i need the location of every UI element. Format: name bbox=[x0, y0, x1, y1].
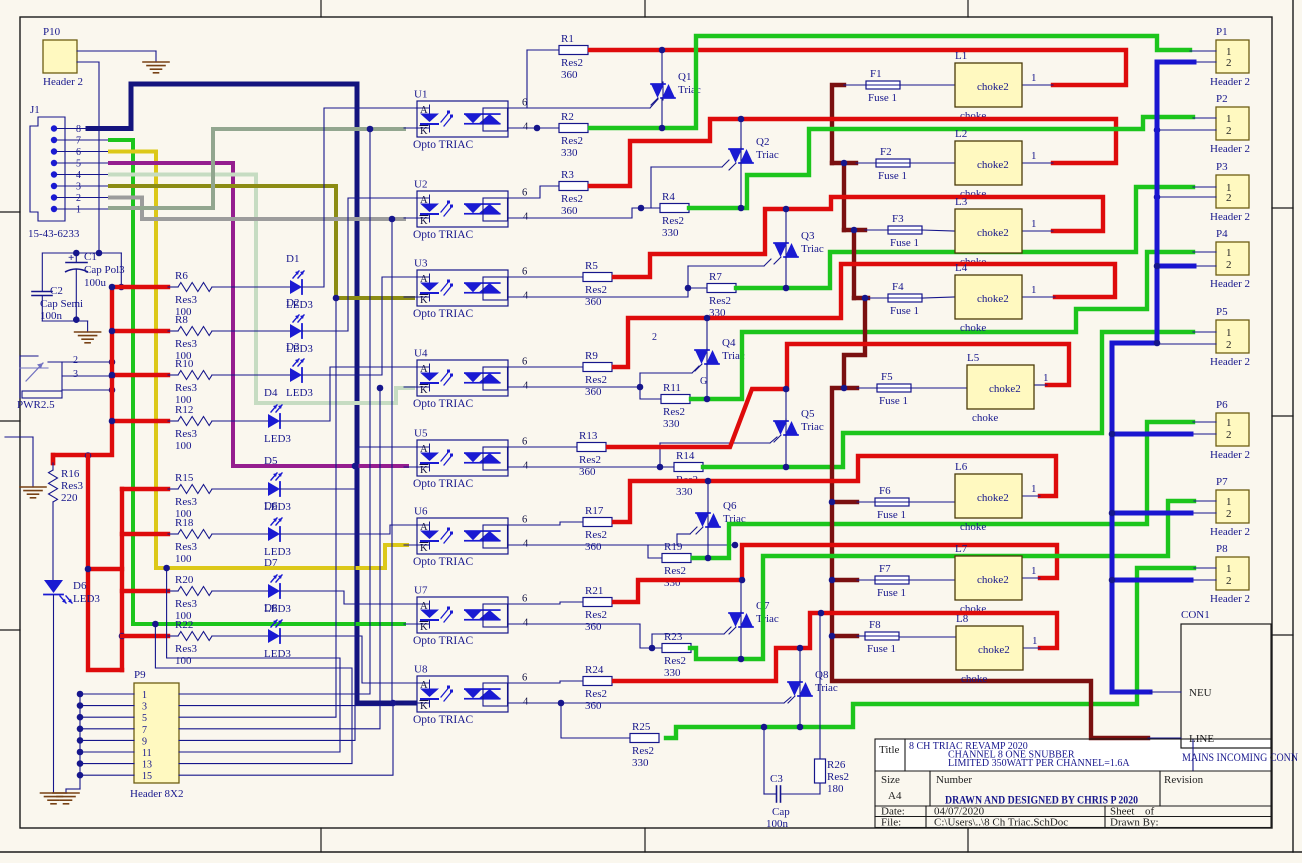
svg-text:Number: Number bbox=[936, 774, 972, 786]
wire D4 cathode riser bbox=[280, 367, 413, 421]
svg-text:2: 2 bbox=[1226, 429, 1232, 441]
inductor L2 bbox=[955, 141, 1022, 185]
wire red bus ladder bbox=[88, 567, 122, 571]
wire snubber bbox=[763, 727, 765, 794]
svg-text:180: 180 bbox=[827, 783, 844, 795]
svg-text:8: 8 bbox=[76, 124, 81, 135]
svg-text:Res2: Res2 bbox=[585, 374, 607, 386]
svg-text:F8: F8 bbox=[869, 619, 881, 631]
wire maroon bus start bbox=[832, 85, 844, 163]
connector J1 bbox=[30, 117, 65, 221]
svg-text:Fuse 1: Fuse 1 bbox=[877, 587, 906, 599]
svg-text:choke: choke bbox=[961, 673, 987, 685]
svg-text:220: 220 bbox=[61, 492, 78, 504]
svg-text:Header 2: Header 2 bbox=[1210, 526, 1250, 538]
resistor R18 bbox=[178, 530, 212, 539]
svg-text:Header 8X2: Header 8X2 bbox=[130, 788, 183, 800]
LED D7 bbox=[268, 584, 280, 598]
resistor R19 bbox=[661, 557, 663, 559]
svg-text:6: 6 bbox=[76, 147, 81, 158]
wire D3 cathode riser bbox=[302, 277, 413, 375]
svg-text:3: 3 bbox=[142, 702, 147, 713]
capacitor C1 bbox=[75, 253, 77, 262]
ground bbox=[75, 331, 101, 333]
svg-text:L7: L7 bbox=[955, 543, 968, 555]
svg-text:Res3: Res3 bbox=[175, 643, 198, 655]
svg-text:R6: R6 bbox=[175, 270, 188, 282]
triac Q7 bbox=[740, 611, 742, 629]
svg-text:choke2: choke2 bbox=[977, 492, 1009, 504]
svg-text:100: 100 bbox=[175, 440, 192, 452]
wire green ch3 bbox=[736, 187, 1193, 288]
wire NEU link bbox=[1150, 691, 1181, 693]
svg-text:U3: U3 bbox=[414, 258, 428, 270]
svg-text:F7: F7 bbox=[879, 563, 891, 575]
wire red stub R8 bbox=[112, 329, 168, 333]
svg-text:choke2: choke2 bbox=[977, 293, 1009, 305]
svg-text:Opto TRIAC: Opto TRIAC bbox=[413, 556, 473, 568]
resistor R20 bbox=[178, 587, 212, 596]
connector P3 bbox=[1216, 175, 1249, 208]
wire red ch2 bbox=[590, 119, 1116, 186]
wire J2 pins bbox=[48, 361, 112, 363]
connector P7 bbox=[1216, 490, 1249, 523]
wire maroon bus seg7 bbox=[832, 578, 857, 582]
inductor L1 bbox=[955, 63, 1022, 107]
svg-text:Cap Semi: Cap Semi bbox=[40, 298, 83, 310]
ground bbox=[143, 61, 169, 63]
wire blue stub P4 bbox=[1157, 264, 1194, 269]
svg-text:choke2: choke2 bbox=[977, 227, 1009, 239]
svg-text:R20: R20 bbox=[175, 574, 194, 586]
wire red stub R6 bbox=[112, 285, 168, 289]
wire P6 pin links bbox=[1193, 421, 1216, 423]
wire green ch5 bbox=[703, 332, 1193, 467]
svg-text:6: 6 bbox=[522, 188, 527, 199]
wire P10 pin1 to ground bbox=[77, 50, 156, 52]
svg-text:R15: R15 bbox=[175, 472, 194, 484]
svg-text:360: 360 bbox=[579, 466, 596, 478]
wire maroon bus seg8 bbox=[832, 634, 857, 638]
connector P9 bbox=[134, 683, 179, 783]
svg-text:F3: F3 bbox=[892, 213, 904, 225]
wire P9 ground rail bbox=[79, 694, 81, 789]
wire harness ch5 bbox=[179, 466, 355, 740]
wire maroon bus seg5 bbox=[844, 386, 857, 390]
LED D2 bbox=[290, 324, 302, 338]
svg-text:1: 1 bbox=[1226, 247, 1232, 259]
svg-text:360: 360 bbox=[585, 700, 602, 712]
svg-text:100n: 100n bbox=[40, 310, 63, 322]
svg-text:6: 6 bbox=[522, 437, 527, 448]
svg-text:NEU: NEU bbox=[1189, 687, 1212, 699]
svg-text:Res3: Res3 bbox=[175, 496, 198, 508]
LED D5 bbox=[268, 482, 280, 496]
wire red stub R20 bbox=[122, 589, 168, 593]
wire red ch8 bbox=[614, 613, 1057, 681]
svg-text:Res3: Res3 bbox=[61, 480, 84, 492]
resistor R6 bbox=[178, 283, 212, 292]
wire maroon bus seg4 bbox=[854, 296, 868, 300]
wire D6 to ground bbox=[53, 595, 55, 793]
wire red stub R22 bbox=[122, 634, 168, 638]
triac Q3 bbox=[785, 241, 787, 259]
wire harness ch7 bbox=[155, 624, 352, 764]
svg-text:4: 4 bbox=[523, 122, 529, 133]
LED D6 bbox=[268, 527, 280, 541]
svg-text:F1: F1 bbox=[870, 68, 882, 80]
svg-text:R14: R14 bbox=[676, 450, 695, 462]
svg-text:R10: R10 bbox=[175, 358, 194, 370]
svg-text:P10: P10 bbox=[43, 26, 61, 38]
wire P10 pin2 bbox=[77, 61, 99, 63]
resistor R25 bbox=[629, 737, 631, 739]
opto-triac U5 bbox=[417, 440, 508, 476]
svg-text:Header 2: Header 2 bbox=[1210, 449, 1250, 461]
svg-text:Res3: Res3 bbox=[175, 294, 198, 306]
svg-text:P1: P1 bbox=[1216, 26, 1228, 38]
svg-text:P9: P9 bbox=[134, 669, 146, 681]
svg-text:LED3: LED3 bbox=[264, 433, 291, 445]
wire P1 pin links bbox=[1190, 50, 1216, 52]
connector P8 bbox=[1216, 557, 1249, 590]
svg-text:Q3: Q3 bbox=[801, 230, 815, 242]
svg-text:330: 330 bbox=[676, 486, 693, 498]
svg-text:Opto TRIAC: Opto TRIAC bbox=[413, 714, 473, 726]
inductor L3 bbox=[955, 209, 1022, 253]
wire P9 left pin bbox=[80, 728, 134, 730]
svg-text:Res2: Res2 bbox=[709, 295, 731, 307]
svg-text:Q4: Q4 bbox=[722, 337, 736, 349]
svg-text:C2: C2 bbox=[50, 285, 63, 297]
svg-text:Fuse 1: Fuse 1 bbox=[878, 170, 907, 182]
svg-text:Opto TRIAC: Opto TRIAC bbox=[413, 635, 473, 647]
wire harness ch4 bbox=[179, 388, 380, 729]
svg-text:L6: L6 bbox=[955, 461, 968, 473]
svg-text:K: K bbox=[420, 465, 428, 476]
svg-text:4: 4 bbox=[523, 291, 529, 302]
svg-text:P5: P5 bbox=[1216, 306, 1228, 318]
wire F5 links bbox=[857, 387, 877, 389]
svg-text:Q2: Q2 bbox=[756, 136, 769, 148]
svg-text:Res3: Res3 bbox=[175, 382, 198, 394]
svg-text:Triac: Triac bbox=[815, 682, 838, 694]
wire U8 pin6 net bbox=[509, 681, 583, 683]
svg-text:D4: D4 bbox=[264, 387, 278, 399]
svg-text:Res2: Res2 bbox=[662, 215, 684, 227]
svg-text:choke2: choke2 bbox=[977, 81, 1009, 93]
svg-text:1: 1 bbox=[1031, 483, 1037, 495]
svg-text:K: K bbox=[420, 622, 428, 633]
svg-text:Q8: Q8 bbox=[815, 669, 829, 681]
ground bbox=[20, 486, 46, 488]
wire P9 left pin bbox=[80, 739, 134, 741]
fuse F3 bbox=[888, 226, 922, 234]
wire P8 pin links bbox=[1194, 567, 1216, 569]
inductor L8 bbox=[956, 626, 1023, 670]
svg-text:Header 2: Header 2 bbox=[1210, 211, 1250, 223]
wire J1 pin3 olive bbox=[110, 186, 413, 298]
svg-text:6: 6 bbox=[522, 673, 527, 684]
wire Q4 gate bbox=[640, 372, 692, 374]
svg-text:Res2: Res2 bbox=[585, 609, 607, 621]
wire red stub R18 bbox=[122, 532, 168, 536]
wire red ch3 bbox=[614, 197, 1103, 277]
wire maroon bus seg6 bbox=[832, 500, 857, 504]
svg-text:1: 1 bbox=[1226, 113, 1232, 125]
svg-text:330: 330 bbox=[632, 757, 649, 769]
resistor R15 bbox=[178, 485, 212, 494]
svg-text:P6: P6 bbox=[1216, 399, 1228, 411]
svg-text:Res2: Res2 bbox=[561, 193, 583, 205]
capacitor C2 bbox=[41, 253, 43, 291]
wire maroon bus seg3 bbox=[844, 228, 865, 232]
opto-triac U7 bbox=[417, 597, 508, 633]
svg-text:360: 360 bbox=[585, 386, 602, 398]
LED D1 bbox=[290, 280, 302, 294]
svg-text:Res3: Res3 bbox=[175, 428, 198, 440]
svg-text:2: 2 bbox=[652, 332, 657, 343]
wire Q6 gate bbox=[677, 533, 690, 535]
connector P2 bbox=[1216, 107, 1249, 140]
svg-text:LED3: LED3 bbox=[73, 593, 100, 605]
triac Q6 bbox=[707, 511, 709, 529]
wire D8 cathode riser bbox=[280, 636, 413, 683]
svg-text:Triac: Triac bbox=[756, 613, 779, 625]
svg-text:choke: choke bbox=[972, 412, 998, 424]
triac Q5 bbox=[785, 419, 787, 437]
triac Q4 bbox=[706, 348, 708, 366]
svg-text:F6: F6 bbox=[879, 485, 891, 497]
title block bbox=[875, 739, 1271, 828]
resistor R8 bbox=[178, 327, 212, 336]
resistor R4 bbox=[659, 207, 661, 209]
svg-text:4: 4 bbox=[523, 539, 529, 550]
resistor R9 bbox=[582, 366, 584, 368]
node blue P5 bbox=[1154, 340, 1161, 347]
wire Q5 vertical bbox=[785, 389, 787, 421]
svg-text:D6: D6 bbox=[73, 580, 87, 592]
resistor R17 bbox=[582, 521, 584, 523]
wire bbox=[168, 488, 178, 490]
wire U4 pin6 net bbox=[509, 366, 583, 368]
svg-text:F5: F5 bbox=[881, 371, 893, 383]
svg-text:2: 2 bbox=[1226, 125, 1232, 137]
wire U3 pin4 net bbox=[509, 288, 688, 297]
svg-text:7: 7 bbox=[142, 725, 147, 736]
svg-text:6: 6 bbox=[522, 267, 527, 278]
svg-text:R5: R5 bbox=[585, 260, 598, 272]
svg-text:choke2: choke2 bbox=[989, 383, 1021, 395]
svg-text:330: 330 bbox=[561, 147, 578, 159]
wire Q7 gate bbox=[652, 633, 724, 635]
wire red stub R10 bbox=[112, 373, 168, 377]
svg-text:1: 1 bbox=[1031, 565, 1037, 577]
wire F3 links bbox=[865, 229, 888, 231]
svg-text:P3: P3 bbox=[1216, 161, 1228, 173]
svg-text:1: 1 bbox=[1031, 284, 1037, 296]
wire P3 pin links bbox=[1193, 186, 1216, 188]
node red bus bbox=[85, 452, 92, 459]
wire U5 pin4 net bbox=[509, 466, 674, 468]
svg-text:LED3: LED3 bbox=[286, 387, 313, 399]
connector J2 PWR2.5 bbox=[19, 356, 21, 398]
svg-text:Triac: Triac bbox=[756, 149, 779, 161]
svg-text:2: 2 bbox=[76, 193, 81, 204]
svg-text:R7: R7 bbox=[709, 271, 722, 283]
svg-text:choke: choke bbox=[960, 322, 986, 334]
wire P9 left pin bbox=[80, 774, 134, 776]
resistor R12 bbox=[178, 417, 212, 426]
svg-text:L1: L1 bbox=[955, 50, 967, 62]
wire blue stub P6 bbox=[1112, 432, 1191, 437]
wire U5 pin6 net bbox=[509, 446, 577, 448]
wire Q1 vertical bbox=[661, 50, 663, 84]
svg-text:U2: U2 bbox=[414, 179, 427, 191]
wire Q7 vertical bbox=[740, 580, 742, 613]
svg-text:Fuse 1: Fuse 1 bbox=[877, 509, 906, 521]
svg-text:2: 2 bbox=[1226, 508, 1232, 520]
svg-text:4: 4 bbox=[523, 461, 529, 472]
resistor R22 bbox=[178, 632, 212, 641]
svg-text:R21: R21 bbox=[585, 585, 603, 597]
wire Q2 gate bbox=[651, 166, 722, 168]
wire F6 links bbox=[857, 501, 875, 503]
svg-text:R2: R2 bbox=[561, 111, 574, 123]
svg-text:Opto TRIAC: Opto TRIAC bbox=[413, 139, 473, 151]
wire P9 left pin bbox=[80, 705, 134, 707]
svg-text:330: 330 bbox=[662, 227, 679, 239]
svg-text:R19: R19 bbox=[664, 541, 683, 553]
svg-text:LED3: LED3 bbox=[264, 648, 291, 660]
svg-text:R23: R23 bbox=[664, 631, 683, 643]
svg-text:360: 360 bbox=[585, 296, 602, 308]
wire red stub R12 bbox=[112, 419, 168, 423]
svg-text:Fuse 1: Fuse 1 bbox=[879, 395, 908, 407]
svg-text:100u: 100u bbox=[84, 277, 107, 289]
svg-text:U1: U1 bbox=[414, 89, 427, 101]
svg-text:MAINS INCOMING CONN: MAINS INCOMING CONN bbox=[1182, 752, 1299, 764]
svg-text:1: 1 bbox=[1226, 496, 1232, 508]
resistor R21 bbox=[582, 601, 584, 603]
opto-triac U1 bbox=[417, 101, 508, 137]
svg-text:R22: R22 bbox=[175, 619, 193, 631]
svg-text:1: 1 bbox=[1031, 218, 1037, 230]
opto-triac U2 bbox=[417, 191, 508, 227]
svg-text:R24: R24 bbox=[585, 664, 604, 676]
wire J1 pin1 sage bbox=[110, 129, 404, 208]
wire harness ch6 bbox=[167, 568, 340, 752]
resistor R24 bbox=[582, 680, 584, 682]
svg-text:D3: D3 bbox=[286, 341, 300, 353]
svg-text:Header 2: Header 2 bbox=[1210, 278, 1250, 290]
svg-text:CON1: CON1 bbox=[1181, 609, 1210, 621]
wire red stub R15 bbox=[122, 487, 168, 491]
svg-text:Cap Pol3: Cap Pol3 bbox=[84, 264, 125, 276]
svg-text:choke: choke bbox=[960, 521, 986, 533]
wire U6 pin6 net bbox=[509, 522, 583, 525]
svg-text:A4: A4 bbox=[888, 790, 902, 802]
resistor R2 bbox=[558, 127, 560, 129]
svg-text:R3: R3 bbox=[561, 169, 574, 181]
LED D6 bbox=[44, 580, 63, 593]
svg-text:K: K bbox=[420, 543, 428, 554]
svg-text:R8: R8 bbox=[175, 314, 188, 326]
svg-text:Q5: Q5 bbox=[801, 408, 815, 420]
svg-text:Header 2: Header 2 bbox=[43, 76, 83, 88]
svg-text:1: 1 bbox=[1226, 327, 1232, 339]
fuse F6 bbox=[875, 498, 909, 506]
wire U4 pin4 net bbox=[509, 387, 661, 399]
wire C1 feed to red bus bbox=[120, 253, 122, 287]
fuse F5 bbox=[877, 384, 911, 392]
wire red ch4 bbox=[614, 264, 1115, 367]
svg-text:1: 1 bbox=[1226, 417, 1232, 429]
svg-text:Header 2: Header 2 bbox=[1210, 76, 1250, 88]
capacitor C3 bbox=[776, 786, 778, 802]
svg-text:Res3: Res3 bbox=[175, 338, 198, 350]
svg-text:15: 15 bbox=[142, 771, 152, 782]
wire D5 cathode riser bbox=[280, 447, 413, 489]
wire J1 pin2 gray bbox=[110, 198, 404, 220]
svg-text:File:: File: bbox=[881, 817, 901, 829]
svg-text:1: 1 bbox=[142, 690, 147, 701]
wire bbox=[168, 286, 178, 288]
inductor L6 bbox=[955, 474, 1022, 518]
svg-text:P4: P4 bbox=[1216, 228, 1228, 240]
svg-text:Fuse 1: Fuse 1 bbox=[890, 237, 919, 249]
resistor R10 bbox=[178, 371, 212, 380]
svg-text:Triac: Triac bbox=[801, 421, 824, 433]
wire U2 pin4 net bbox=[509, 208, 660, 218]
wire bbox=[168, 330, 178, 332]
svg-text:R16: R16 bbox=[61, 468, 80, 480]
svg-text:360: 360 bbox=[585, 541, 602, 553]
svg-text:Opto TRIAC: Opto TRIAC bbox=[413, 308, 473, 320]
svg-text:4: 4 bbox=[76, 170, 81, 181]
triac Q8 bbox=[799, 680, 801, 698]
svg-text:2: 2 bbox=[1226, 339, 1232, 351]
wire LINE stub down bbox=[1192, 739, 1194, 771]
svg-text:L3: L3 bbox=[955, 196, 968, 208]
svg-text:3: 3 bbox=[76, 182, 81, 193]
wire blue stub P8 bbox=[1112, 578, 1191, 583]
wire red ch7 bbox=[614, 545, 1057, 602]
wire D6 cathode riser bbox=[280, 525, 413, 534]
svg-text:Opto TRIAC: Opto TRIAC bbox=[413, 478, 473, 490]
svg-text:D1: D1 bbox=[286, 253, 299, 265]
wire red stub R16 bbox=[51, 455, 55, 463]
svg-text:5: 5 bbox=[142, 713, 147, 724]
wire green ch8 bbox=[666, 568, 1194, 738]
wire ground branch bbox=[5, 436, 33, 438]
svg-text:K: K bbox=[420, 295, 428, 306]
svg-text:L2: L2 bbox=[955, 128, 967, 140]
wire bbox=[168, 590, 178, 592]
svg-text:U8: U8 bbox=[414, 664, 428, 676]
fuse F2 bbox=[876, 159, 910, 167]
svg-text:J1: J1 bbox=[30, 104, 40, 116]
wire U8 pin4 net bbox=[509, 702, 784, 704]
connector P4 bbox=[1216, 242, 1249, 275]
ground bbox=[41, 792, 67, 794]
connector CON1 bbox=[1181, 624, 1271, 748]
svg-text:Res2: Res2 bbox=[585, 688, 607, 700]
wire bbox=[168, 533, 178, 535]
svg-text:C1: C1 bbox=[84, 251, 97, 263]
svg-text:Res2: Res2 bbox=[561, 57, 583, 69]
svg-text:U5: U5 bbox=[414, 428, 428, 440]
